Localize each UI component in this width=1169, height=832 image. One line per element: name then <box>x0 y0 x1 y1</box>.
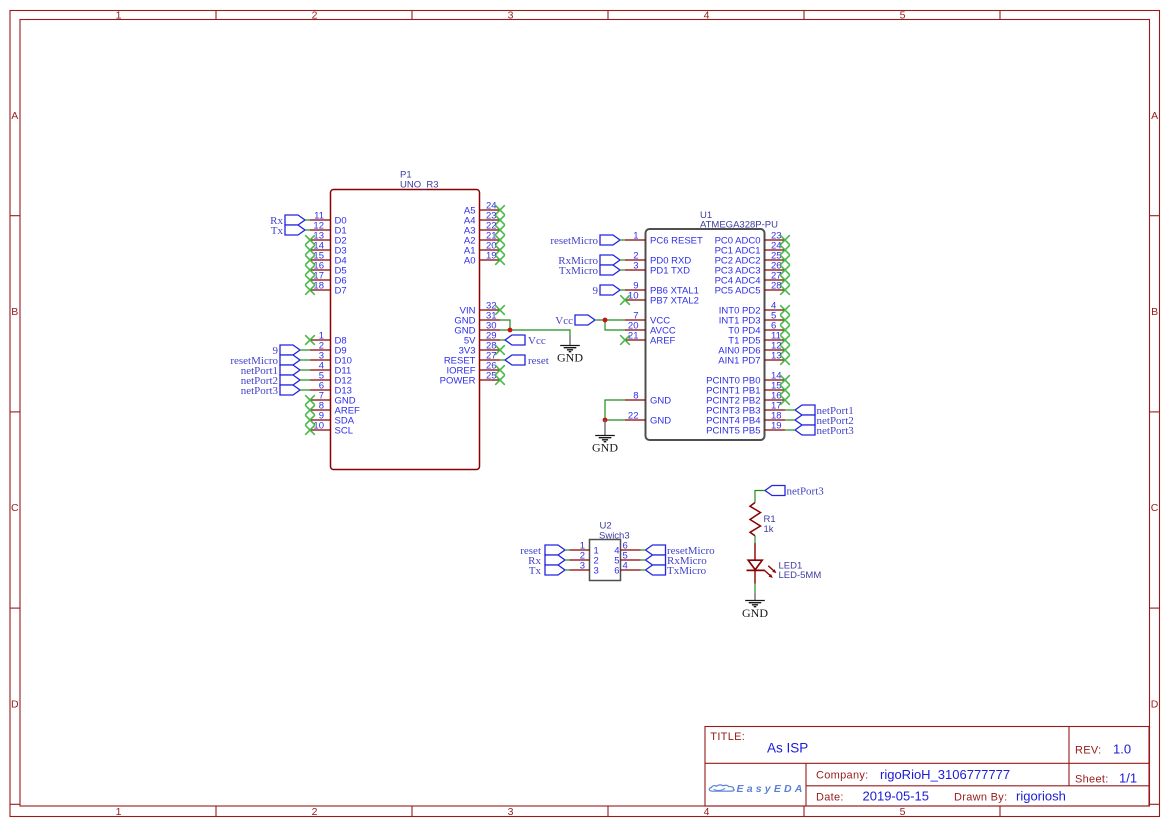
svg-text:Company:: Company: <box>816 770 869 782</box>
port reset <box>545 545 565 555</box>
svg-text:2: 2 <box>312 10 318 22</box>
pin 19 (A0) of P1 <box>480 259 501 261</box>
svg-text:D7: D7 <box>335 286 347 297</box>
pin 14 (PCINT0 PB0) of U1 <box>765 379 786 381</box>
wire 9 to D9 <box>300 349 310 351</box>
pin 24 (PC1 ADC1) of U1 <box>765 249 786 251</box>
wire LED to ground <box>754 584 756 593</box>
pin 26 (PC3 ADC3) of U1 <box>765 269 786 271</box>
svg-text:PC5 ADC5: PC5 ADC5 <box>715 286 761 297</box>
column ticks top/bottom <box>215 11 217 20</box>
wire U2 pin 6 to resetMicro <box>641 549 646 551</box>
pin 15 (PCINT1 PB1) of U1 <box>765 389 786 391</box>
lead LED bottom <box>754 570 756 583</box>
wire netPort3 to D13 <box>300 389 310 391</box>
port resetMicro <box>646 545 666 555</box>
ground stem <box>754 592 756 600</box>
svg-text:C: C <box>1151 502 1159 514</box>
wire netPort1 to D11 <box>300 369 310 371</box>
junction GND net <box>508 328 513 333</box>
svg-text:PC6 RESET: PC6 RESET <box>650 236 703 247</box>
svg-text:8: 8 <box>633 391 638 402</box>
pin 17 (PCINT3 PB3) of U1 <box>765 409 786 411</box>
pin 7 (VCC) of U1 <box>625 319 646 321</box>
pin 14 (D3) of P1 <box>310 249 331 251</box>
svg-text:GND: GND <box>742 606 768 620</box>
pin 7 (GND) of P1 <box>310 399 331 401</box>
wire Rx to U2 pin 2 <box>565 559 570 561</box>
port Vcc at U1 <box>575 315 595 325</box>
pin 4 (INT0 PD2) of U1 <box>765 309 786 311</box>
svg-text:resetMicro: resetMicro <box>550 235 598 247</box>
pin 18 (PCINT4 PB4) of U1 <box>765 419 786 421</box>
wire resetMicro to U1 pin 1 <box>620 239 625 241</box>
EasyEDA logo <box>709 785 734 791</box>
wire GND pin 8 down <box>605 400 625 420</box>
port netPort3 <box>765 486 785 496</box>
pin 29 (5V) of P1 <box>480 339 501 341</box>
svg-text:3: 3 <box>508 10 514 22</box>
svg-text:1.0: 1.0 <box>1113 742 1131 757</box>
pin 2 (D9) of P1 <box>310 349 331 351</box>
pin 32 (VIN) of P1 <box>480 309 501 311</box>
svg-text:netPort3: netPort3 <box>817 425 855 437</box>
port resetMicro <box>280 355 300 365</box>
svg-text:GND: GND <box>650 396 671 407</box>
port Rx <box>545 555 565 565</box>
port RxMicro <box>600 255 620 265</box>
svg-text:Vcc: Vcc <box>555 315 573 327</box>
svg-text:Drawn By:: Drawn By: <box>954 791 1007 803</box>
svg-text:1: 1 <box>116 806 122 818</box>
svg-text:9: 9 <box>593 285 599 297</box>
pin 10 (PB7 XTAL2) of U1 <box>625 299 646 301</box>
pin 9 (SDA) of P1 <box>310 419 331 421</box>
wire R1 to LED1 <box>754 536 756 543</box>
port Vcc at 5V <box>500 339 505 341</box>
resistor R1 <box>750 503 761 536</box>
junction Vcc net <box>603 318 608 323</box>
wire Vcc to AVCC pin 20 <box>605 320 625 330</box>
wire Tx to U2 pin 3 <box>565 569 570 571</box>
svg-text:1k: 1k <box>764 524 774 535</box>
svg-text:AIN1 PD7: AIN1 PD7 <box>718 356 760 367</box>
svg-text:A: A <box>1151 110 1158 122</box>
svg-text:Date:: Date: <box>816 791 844 803</box>
pin 20 (AVCC) of U1 <box>625 329 646 331</box>
svg-text:LED-5MM: LED-5MM <box>779 570 822 581</box>
junction GND net U1 <box>603 418 608 423</box>
svg-text:SCL: SCL <box>335 426 353 437</box>
svg-text:4: 4 <box>704 806 710 818</box>
svg-text:3: 3 <box>508 806 514 818</box>
title block outline <box>705 727 1149 807</box>
svg-text:2: 2 <box>312 806 318 818</box>
ground stem <box>604 420 606 435</box>
wire TxMicro to U1 pin 3 <box>620 269 625 271</box>
svg-text:PD1 TXD: PD1 TXD <box>650 266 690 277</box>
pin 12 (AIN0 PD6) of U1 <box>765 349 786 351</box>
pin 26 (IOREF) of P1 <box>480 369 501 371</box>
pin 5 of U2 <box>621 559 641 561</box>
svg-text:As ISP: As ISP <box>767 741 808 756</box>
port resetMicro <box>600 235 620 245</box>
ground symbol GND <box>745 601 765 607</box>
pin 28 (3V3) of P1 <box>480 349 501 351</box>
port netPort1 <box>795 405 815 415</box>
pin 8 (GND) of U1 <box>625 399 646 401</box>
pin 6 (D13) of P1 <box>310 389 331 391</box>
pin 5 (D12) of P1 <box>310 379 331 381</box>
pin 28 (PC5 ADC5) of U1 <box>765 289 786 291</box>
pin 4 of U2 <box>621 569 641 571</box>
svg-text:netPort3: netPort3 <box>787 486 825 498</box>
pin 5 (INT1 PD3) of U1 <box>765 319 786 321</box>
svg-text:D: D <box>1151 698 1159 710</box>
svg-text:C: C <box>11 502 19 514</box>
pin 13 (D2) of P1 <box>310 239 331 241</box>
wire netPort2 to D12 <box>300 379 310 381</box>
pin 23 (A4) of P1 <box>480 219 501 221</box>
pin 11 (D0) of P1 <box>310 219 331 221</box>
pin 10 (SCL) of P1 <box>310 429 331 431</box>
svg-text:22: 22 <box>628 411 639 422</box>
pin 4 (D11) of P1 <box>310 369 331 371</box>
pin 6 of U2 <box>621 549 641 551</box>
pin 1 of U2 <box>570 549 590 551</box>
wire U2 pin 5 to RxMicro <box>641 559 646 561</box>
pin 25 (PC2 ADC2) of U1 <box>765 259 786 261</box>
LED D symbol LED1 <box>748 560 762 570</box>
pin 9 (PB6 XTAL1) of U1 <box>625 289 646 291</box>
pin 20 (A1) of P1 <box>480 249 501 251</box>
svg-text:GND: GND <box>592 441 618 455</box>
port Tx <box>285 225 305 235</box>
port Rx <box>285 215 305 225</box>
wire GND to pin 22 <box>605 419 625 421</box>
port netPort3 <box>795 425 815 435</box>
IC U1 ATMEGA328P-PU body <box>646 229 765 440</box>
wire GND net to ground <box>500 330 570 336</box>
svg-text:1: 1 <box>116 10 122 22</box>
pin 31 (GND) of P1 <box>480 319 501 321</box>
svg-text:3: 3 <box>580 561 585 572</box>
port TxMicro <box>600 265 620 275</box>
svg-text:rigoRioH_3106777777: rigoRioH_3106777777 <box>880 767 1010 782</box>
pin 15 (D4) of P1 <box>310 259 331 261</box>
pin 21 (AREF) of U1 <box>625 339 646 341</box>
wire Vcc to VCC pin 7 <box>595 319 625 321</box>
port netPort3 <box>280 385 300 395</box>
svg-text:6: 6 <box>614 566 619 577</box>
switch U2 Swich3 body <box>590 540 621 581</box>
pin 19 (PCINT5 PB5) of U1 <box>765 429 786 431</box>
lead R1-LED red <box>754 543 756 560</box>
pin 8 (AREF) of P1 <box>310 409 331 411</box>
svg-text:GND: GND <box>650 416 671 427</box>
wire GND pin31 to pin30 net <box>500 320 510 330</box>
svg-text:UNO_R3: UNO_R3 <box>400 180 439 191</box>
pin 22 (A3) of P1 <box>480 229 501 231</box>
svg-text:rigoriosh: rigoriosh <box>1016 789 1066 804</box>
pin 24 (A5) of P1 <box>480 209 501 211</box>
svg-text:ATMEGA328P-PU: ATMEGA328P-PU <box>700 220 778 231</box>
pin 27 (RESET) of P1 <box>480 359 501 361</box>
pin 2 of U2 <box>570 559 590 561</box>
svg-text:D: D <box>11 698 19 710</box>
wire U1 pin 19 to netPort3 <box>785 429 795 431</box>
pin 13 (AIN1 PD7) of U1 <box>765 359 786 361</box>
pin 16 (D5) of P1 <box>310 269 331 271</box>
pin 22 (GND) of U1 <box>625 419 646 421</box>
port RxMicro <box>646 555 666 565</box>
svg-text:Tx: Tx <box>271 225 284 237</box>
port Tx <box>545 565 565 575</box>
wire Tx to D1 <box>305 229 310 231</box>
svg-text:TxMicro: TxMicro <box>559 265 599 277</box>
wire 9 to U1 pin 9 <box>620 289 625 291</box>
svg-text:3: 3 <box>633 261 638 272</box>
wire U1 pin 18 to netPort2 <box>785 419 795 421</box>
row ticks left/right <box>10 215 20 217</box>
svg-text:Sheet:: Sheet: <box>1075 774 1109 786</box>
pin 2 (PD0 RXD) of U1 <box>625 259 646 261</box>
pin 3 (PD1 TXD) of U1 <box>625 269 646 271</box>
svg-text:A0: A0 <box>464 256 476 267</box>
wire Rx to D0 <box>305 219 310 221</box>
pin 6 (T0 PD4) of U1 <box>765 329 786 331</box>
title block dividers <box>705 762 1149 764</box>
pin 18 (D7) of P1 <box>310 289 331 291</box>
svg-text:TITLE:: TITLE: <box>710 731 745 743</box>
svg-text:B: B <box>11 306 18 318</box>
LED1 emission arrows <box>768 566 773 571</box>
pin 12 (D1) of P1 <box>310 229 331 231</box>
port TxMicro <box>646 565 666 575</box>
svg-text:PB7 XTAL2: PB7 XTAL2 <box>650 296 699 307</box>
wire reset to U2 pin 1 <box>565 549 570 551</box>
svg-text:netPort3: netPort3 <box>241 385 279 397</box>
svg-text:3: 3 <box>594 566 599 577</box>
svg-text:A: A <box>11 110 18 122</box>
port netPort2 <box>280 375 300 385</box>
pin 11 (T1 PD5) of U1 <box>765 339 786 341</box>
wire resetMicro to D10 <box>300 359 310 361</box>
ground symbol GND <box>595 436 615 442</box>
svg-text:Tx: Tx <box>529 565 542 577</box>
port 9 <box>600 285 620 295</box>
wire U1 pin 17 to netPort1 <box>785 409 795 411</box>
pin 16 (PCINT2 PB2) of U1 <box>765 399 786 401</box>
wire RxMicro to U1 pin 2 <box>620 259 625 261</box>
svg-text:POWER: POWER <box>440 376 476 387</box>
svg-text:AREF: AREF <box>650 336 676 347</box>
pin 3 of U2 <box>570 569 590 571</box>
ground stem <box>569 336 571 346</box>
svg-text:1: 1 <box>633 231 638 242</box>
wire U2 pin 4 to TxMicro <box>641 569 646 571</box>
pin 30 (GND) of P1 <box>480 329 501 331</box>
pin 25 (POWER) of P1 <box>480 379 501 381</box>
port netPort2 <box>795 415 815 425</box>
svg-text:reset: reset <box>528 355 549 367</box>
svg-text:TxMicro: TxMicro <box>667 565 707 577</box>
wire netPort3 to R1 <box>755 491 765 503</box>
port reset at RESET <box>500 359 505 361</box>
svg-text:Vcc: Vcc <box>528 335 546 347</box>
pin 17 (D6) of P1 <box>310 279 331 281</box>
svg-text:5: 5 <box>900 806 906 818</box>
pin 1 (D8) of P1 <box>310 339 331 341</box>
svg-text:4: 4 <box>623 561 628 572</box>
ground symbol GND <box>560 346 580 352</box>
pin 1 (PC6 RESET) of U1 <box>625 239 646 241</box>
svg-text:REV:: REV: <box>1075 745 1101 757</box>
svg-text:1/1: 1/1 <box>1119 771 1137 786</box>
svg-text:19: 19 <box>771 421 782 432</box>
pin 21 (A2) of P1 <box>480 239 501 241</box>
port 9 <box>280 345 300 355</box>
pin 27 (PC4 ADC4) of U1 <box>765 279 786 281</box>
svg-text:EasyEDA: EasyEDA <box>737 783 806 795</box>
svg-text:2019-05-15: 2019-05-15 <box>863 789 930 804</box>
pin 3 (D10) of P1 <box>310 359 331 361</box>
svg-text:4: 4 <box>704 10 710 22</box>
svg-text:5: 5 <box>900 10 906 22</box>
svg-text:PCINT5 PB5: PCINT5 PB5 <box>706 426 760 437</box>
svg-text:B: B <box>1151 306 1158 318</box>
svg-text:GND: GND <box>557 351 583 365</box>
connector P1 UNO_R3 body <box>331 190 480 470</box>
pin 23 (PC0 ADC0) of U1 <box>765 239 786 241</box>
port netPort1 <box>280 365 300 375</box>
